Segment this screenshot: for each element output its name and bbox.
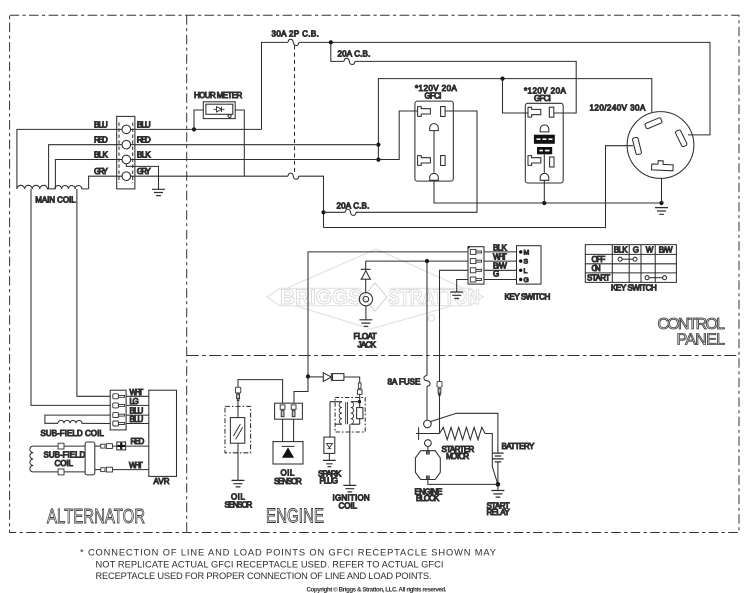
svg-text:8A FUSE: 8A FUSE — [388, 377, 421, 386]
svg-text:AVR: AVR — [154, 477, 170, 486]
wire: main coil tap to AVR pin WHT — [77, 189, 110, 396]
key switch connector — [468, 246, 484, 284]
svg-text:MAIN COIL: MAIN COIL — [35, 196, 76, 205]
svg-text:BLOCK: BLOCK — [416, 494, 440, 503]
svg-text:BLK: BLK — [614, 246, 628, 255]
GFCI receptacle 1 (120V 20A) — [415, 84, 458, 181]
wire: oil switch to ground — [237, 443, 239, 480]
wire: RED/BLK riser to GFCI2 feed rail and receptacle top — [378, 79, 651, 160]
svg-text:B/W: B/W — [659, 246, 673, 255]
label RED (right) — [137, 136, 151, 145]
node: junction start relay / battery / grounds — [496, 482, 501, 487]
main coil MAIN COIL — [17, 185, 89, 204]
key switch truth table — [585, 245, 676, 283]
svg-text:BLK: BLK — [94, 150, 108, 159]
svg-text:* CONNECTION OF LINE AND LOAD: * CONNECTION OF LINE AND LOAD POINTS ON … — [80, 548, 496, 558]
label 20A C.B. (upper) — [338, 50, 371, 59]
wire: rectifier to ignition coil — [344, 377, 360, 383]
watermark Briggs & Stratton logo — [267, 249, 483, 329]
hour meter — [194, 91, 243, 119]
circuit breaker 20A (upper) — [344, 58, 355, 64]
wire: fuse to relay contact — [426, 386, 428, 420]
svg-text:START: START — [587, 274, 610, 283]
wire: terminal to coil junction — [359, 394, 361, 401]
wire: GFCI2 bottom pin drop — [543, 180, 545, 203]
label LG (AVR pin2) — [130, 397, 139, 406]
ground: float jack — [359, 320, 372, 327]
wire: hour meter right lead to GRY rail — [235, 110, 244, 176]
label BLU (AVR pin3) — [130, 407, 144, 416]
wire: junction to diode — [308, 376, 323, 378]
label BLK (right) — [137, 150, 151, 159]
svg-text:OFF: OFF — [592, 255, 606, 264]
wire: RED to main coil tap — [49, 145, 122, 189]
svg-text:BRIGGS: BRIGGS — [280, 286, 362, 309]
svg-text:WHT: WHT — [493, 252, 507, 261]
terminal BLK — [122, 155, 131, 164]
wire: AVR pin 4 BLU — [126, 423, 149, 425]
wire: connector pin 2 to oil sensor — [293, 419, 295, 441]
circuit breaker 20A (lower) — [345, 209, 356, 215]
spark plug — [324, 437, 335, 460]
label RED (left) — [94, 136, 108, 145]
svg-text:BLU: BLU — [137, 120, 151, 129]
svg-text:WHT: WHT — [129, 461, 143, 470]
terminal RED — [122, 140, 131, 149]
wire: connector to key switch M — [484, 251, 517, 253]
footnote — [80, 548, 496, 593]
label G (key switch) — [493, 270, 499, 279]
wire: connector to key switch L — [484, 269, 517, 271]
section divider: alternator | engine/control panel — [186, 15, 188, 532]
node: junction hour meter / BLU — [192, 127, 196, 131]
svg-text:G: G — [493, 270, 499, 279]
section label CONTROL PANEL — [658, 316, 726, 348]
diode: float jack — [361, 269, 371, 279]
label STARTER MOTOR — [442, 445, 475, 461]
label 8A FUSE — [388, 377, 421, 386]
label GRY (right) — [137, 167, 151, 176]
label SUB-FIELD COIL (upper) — [41, 429, 105, 438]
label RED (AVR) — [131, 437, 145, 446]
svg-text:LG: LG — [130, 397, 139, 406]
svg-text:MOTOR: MOTOR — [446, 452, 469, 461]
inline terminal (B/W starter lead) — [437, 381, 442, 395]
label BLU (right) — [137, 120, 151, 129]
wire: terminal to AVR (WHT) — [112, 469, 148, 471]
ground: start relay — [491, 491, 504, 498]
node: junction GFCI2 line feed — [500, 77, 504, 81]
wire: AVR pin 1 WHT — [126, 395, 149, 397]
wire: 20A breaker to GRY dropper — [324, 211, 346, 213]
node: junction RED wire end — [376, 143, 380, 147]
terminal BLU — [122, 125, 131, 134]
starter solenoid coil (zigzag) — [440, 427, 498, 484]
svg-text:ALTERNATOR: ALTERNATOR — [47, 506, 145, 528]
svg-text:GFCI: GFCI — [534, 94, 551, 103]
wire: GFCI1 bottom pin to neutral rail — [434, 180, 662, 203]
label KEY SWITCH (left) — [505, 292, 551, 301]
label BATTERY — [502, 442, 535, 451]
wire: terminal to solenoid coil — [439, 393, 441, 434]
svg-text:30A 2P C.B.: 30A 2P C.B. — [272, 30, 320, 39]
label 30A 2P C.B. — [272, 30, 320, 39]
wire: 20A branch rail to GFCI 2 top-right — [331, 42, 576, 113]
oil pressure switch (dash-dot housing) — [225, 406, 251, 452]
diode: charge rectifier — [323, 373, 331, 382]
svg-text:BATTERY: BATTERY — [502, 442, 535, 451]
svg-text:G: G — [524, 277, 529, 284]
svg-text:BLK: BLK — [137, 150, 151, 159]
wire: BLK terminal stub to chassis ground — [126, 164, 158, 190]
label WHT (key switch) — [493, 252, 507, 261]
wire: connector left pin loop to oil pressure switch — [238, 380, 283, 404]
starter motor armature bar — [416, 427, 440, 440]
ignition coil assembly — [330, 398, 365, 433]
label ENGINE BLOCK — [415, 487, 443, 503]
float jack connector — [359, 279, 372, 320]
svg-text:ON: ON — [592, 264, 601, 273]
svg-text:120/240V 30A: 120/240V 30A — [590, 104, 646, 113]
wire: main coil tap to AVR pin LG — [31, 189, 110, 406]
svg-text:M: M — [524, 250, 530, 257]
wire: coil primary to spark plug — [329, 402, 331, 437]
sub-field coil connector block — [85, 442, 95, 475]
svg-text:BLU: BLU — [130, 415, 144, 424]
node: engine feed junction — [306, 374, 310, 378]
svg-text:RELAY: RELAY — [487, 508, 511, 517]
section label ALTERNATOR — [47, 506, 145, 528]
inline terminal (ignition feed) — [357, 383, 362, 394]
svg-text:W: W — [646, 246, 654, 255]
label WHT (AVR lower) — [129, 461, 143, 470]
node: junction BLK riser base — [376, 158, 380, 162]
label BLK (left) — [94, 150, 108, 159]
wire: ignition coil secondary to ground — [349, 424, 351, 485]
wire: connector to key switch G — [484, 279, 517, 281]
svg-text:RED: RED — [131, 437, 145, 446]
engine block — [415, 451, 440, 480]
svg-text:S: S — [524, 259, 529, 266]
inline terminal pair (WHT) — [101, 467, 113, 472]
svg-text:SENSOR: SENSOR — [274, 477, 302, 486]
wire BLK: terminal to GFCI 1 top-left pin — [131, 111, 418, 160]
bullet connector (RED) — [117, 442, 126, 450]
svg-text:PANEL: PANEL — [677, 331, 726, 348]
wire: B/W key line to starter solenoid — [440, 270, 469, 381]
receptacle 120/240V 30A twist-lock — [590, 104, 694, 179]
relay contact pivot — [424, 420, 432, 428]
svg-text:G: G — [633, 246, 639, 255]
wire: GRY to main coil right end — [89, 176, 122, 189]
wire: BLK to main coil tap — [55, 160, 122, 189]
svg-text:GRY: GRY — [137, 167, 151, 176]
node: junction GRY dropper / 20A wire — [321, 210, 325, 214]
svg-text:STRATTON: STRATTON — [388, 286, 480, 309]
wire: relay junction stub — [497, 484, 499, 490]
AVR box — [149, 390, 177, 476]
inline terminal pair (RED) — [101, 444, 113, 449]
svg-text:RED: RED — [94, 136, 108, 145]
node: junction 30A rail / 20A branch — [329, 40, 333, 44]
sub-field coil (lower) — [30, 443, 85, 475]
label OIL SENSOR (right) — [274, 469, 302, 486]
wire BLU: terminal to 30A rail riser — [131, 128, 262, 130]
terminal GRY — [122, 172, 131, 181]
wire: junction drop to oil sensor connector — [294, 377, 308, 404]
wire RED: terminal to junction — [131, 144, 379, 146]
wire: 30A breaker rail from BLU riser across top — [262, 42, 711, 134]
float jack branch wire — [365, 261, 367, 269]
svg-text:HOUR METER: HOUR METER — [194, 91, 243, 100]
node: junction receptacle bottom / panel ground — [659, 201, 663, 205]
label BLU (left) — [94, 120, 108, 129]
label FLOAT JACK — [354, 332, 377, 349]
svg-text:RECEPTACLE USED FOR PROPER CON: RECEPTACLE USED FOR PROPER CONNECTION OF… — [96, 571, 432, 581]
ground: spark plug — [323, 460, 336, 466]
AVR connector (4-pin) — [110, 390, 126, 430]
svg-text:ENGINE: ENGINE — [266, 506, 324, 528]
label BLK (key switch) — [493, 243, 507, 252]
label START RELAY — [487, 502, 511, 518]
battery — [492, 453, 503, 484]
label SUB-FIELD COIL (lower) — [44, 451, 86, 468]
label IGNITION COIL — [333, 494, 370, 511]
circuit breaker 30A 2P (pole 2) — [288, 173, 299, 179]
section label ENGINE — [266, 506, 324, 528]
wire: GFCI1 top-right pin loop to 20A breaker (load) — [356, 111, 477, 212]
svg-text:SENSOR: SENSOR — [225, 501, 253, 510]
wire: block to RED terminal pair — [95, 445, 101, 447]
svg-text:BLU: BLU — [94, 120, 108, 129]
inline connector (rectifier lead) — [333, 374, 344, 381]
wire: AVR pin 2 LG — [126, 404, 149, 406]
wire: BLK key line to engine junction — [308, 252, 468, 377]
wire: engine block to relay junction — [428, 476, 498, 485]
terminal strip: alternator output connector — [117, 116, 135, 188]
wire: BLU to main coil left end — [17, 129, 122, 189]
ground: terminal strip — [152, 189, 165, 195]
label WHT (AVR pin1) — [130, 388, 144, 397]
svg-text:RED: RED — [137, 136, 151, 145]
svg-text:L: L — [524, 268, 528, 275]
relay blade to battery — [430, 413, 498, 453]
label B/W (key switch) — [493, 261, 507, 270]
svg-text:GRY: GRY — [94, 167, 108, 176]
svg-text:SUB-FIELD COIL: SUB-FIELD COIL — [41, 429, 105, 438]
svg-text:KEY SWITCH: KEY SWITCH — [505, 292, 551, 301]
wire: terminal into oil switch — [237, 401, 239, 418]
label OIL SENSOR (left) — [225, 493, 253, 510]
circuit breaker 30A 2P (pole 1) — [288, 39, 299, 45]
svg-text:20A C.B.: 20A C.B. — [337, 201, 370, 210]
wire: AVR pin 3 BLU — [126, 414, 149, 416]
wire: WHT key line — [366, 260, 468, 262]
ground: key switch — [450, 292, 463, 299]
svg-text:Copyright © Briggs & Stratton,: Copyright © Briggs & Stratton, LLC. All … — [307, 587, 447, 593]
wire: drop to GFCI 2 top-left pin — [503, 79, 529, 113]
wire GRY: terminal through 30A pole 2 to dropper — [131, 176, 324, 227]
wire: hour meter left lead to BLU rail — [194, 110, 203, 129]
ground: ignition coil — [343, 485, 356, 492]
wire: GRY run to receptacle left slot — [324, 146, 634, 228]
GFCI receptacle 2 (120V 20A with test/reset) — [524, 87, 566, 183]
mechanical tie of 2-pole breaker (dashed) — [294, 46, 296, 174]
wire: connector pin 1 to oil sensor — [282, 419, 284, 441]
svg-text:PLUG: PLUG — [320, 477, 339, 486]
ground: control panel — [655, 208, 668, 215]
svg-text:BLK: BLK — [493, 243, 507, 252]
svg-text:COIL: COIL — [55, 459, 74, 468]
svg-text:NOT REPLICATE ACTUAL GFCI RECE: NOT REPLICATE ACTUAL GFCI RECEPTACLE USE… — [96, 559, 444, 569]
wire: connector to key switch S — [484, 260, 517, 262]
sub-field coil (upper) — [45, 415, 110, 423]
section divider: control panel / engine — [187, 355, 739, 357]
svg-text:GFCI: GFCI — [425, 92, 442, 101]
node: junction GFCI2 bottom on neutral rail — [542, 201, 546, 205]
svg-text:JACK: JACK — [358, 340, 377, 349]
wire: block to WHT terminal pair — [95, 469, 101, 471]
ground: oil pressure switch — [232, 480, 245, 487]
inline terminal (oil switch lead) — [235, 387, 240, 400]
label AVR — [154, 477, 170, 486]
label GRY (left) — [94, 167, 108, 176]
label BLU (AVR pin4) — [130, 415, 144, 424]
svg-text:WHT: WHT — [130, 388, 144, 397]
wire: key switch G to ground — [457, 280, 468, 293]
node: junction WHT / fuse line — [425, 259, 429, 263]
label 20A C.B. (lower) — [337, 201, 370, 210]
wire: WHT dot down to fuse — [426, 261, 428, 375]
svg-text:COIL: COIL — [339, 502, 358, 511]
oil sensor connector (2-pin) — [275, 403, 303, 419]
oil sensor (thermal) — [273, 442, 303, 464]
label KEY SWITCH (table) — [611, 284, 657, 293]
svg-text:KEY SWITCH: KEY SWITCH — [611, 284, 657, 293]
svg-text:20A C.B.: 20A C.B. — [338, 50, 371, 59]
wire: receptacle bottom pin to panel ground junction — [661, 178, 663, 203]
label SPARK PLUG — [318, 469, 342, 485]
starter motor — [425, 440, 432, 455]
fuse 8A — [424, 376, 430, 387]
wire: connector to AVR (RED) — [112, 445, 148, 447]
key switch body — [517, 246, 542, 284]
